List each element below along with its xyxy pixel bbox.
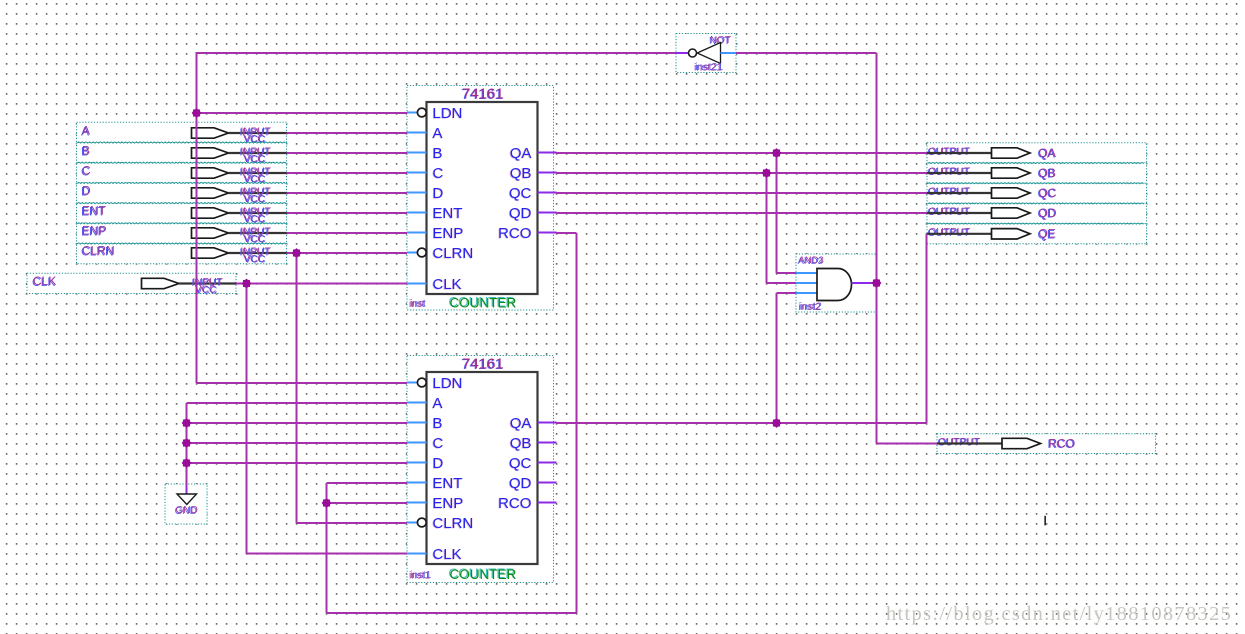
svg-text:QA: QA bbox=[510, 415, 532, 432]
svg-text:C: C bbox=[433, 435, 444, 452]
wire GND B2 bbox=[187, 422, 408, 424]
input pin A bbox=[77, 122, 287, 145]
svg-text:A: A bbox=[433, 125, 443, 142]
svg-text:LDN: LDN bbox=[433, 375, 463, 392]
junction node D2 bbox=[182, 458, 192, 468]
svg-text:QB: QB bbox=[1039, 166, 1056, 180]
NOT gate inst21 bbox=[676, 34, 736, 74]
wire input CLRN to U1 bbox=[287, 252, 408, 254]
junction node QB1 bbox=[762, 168, 772, 178]
svg-text:https://blog.csdn.net/ly188108: https://blog.csdn.net/ly18810878325 bbox=[886, 603, 1232, 625]
svg-text:D: D bbox=[82, 184, 91, 198]
svg-text:inst: inst bbox=[409, 299, 425, 310]
output pin QA bbox=[927, 143, 1147, 163]
svg-text:D: D bbox=[433, 455, 444, 472]
svg-text:COUNTER: COUNTER bbox=[450, 567, 517, 582]
watermark bbox=[886, 603, 1232, 625]
svg-text:QD: QD bbox=[509, 205, 532, 222]
wire input D to U1 bbox=[287, 192, 408, 194]
svg-text:OUTPUT: OUTPUT bbox=[929, 166, 971, 177]
svg-text:VCC: VCC bbox=[244, 255, 266, 266]
wire QA2 to QE chain bbox=[556, 234, 927, 423]
selection box shared borders bbox=[77, 142, 1144, 244]
svg-text:VCC: VCC bbox=[196, 285, 218, 296]
wire GND vertical bbox=[186, 403, 188, 486]
junction node QA1 bbox=[772, 148, 782, 158]
wire QB1 drop to AND3 in2 bbox=[767, 173, 797, 283]
svg-text:QA: QA bbox=[510, 145, 532, 162]
wire input ENP to U1 bbox=[287, 232, 408, 234]
junction node QA2 bbox=[772, 418, 782, 428]
wire RCO1 feedback bbox=[327, 233, 577, 613]
input pin ENT bbox=[77, 203, 287, 226]
input pin D bbox=[77, 183, 287, 206]
svg-text:QB: QB bbox=[510, 435, 532, 452]
wire CLRN chain vertical bbox=[296, 253, 298, 523]
svg-text:ENP: ENP bbox=[433, 225, 464, 242]
svg-text:inst1: inst1 bbox=[409, 571, 431, 582]
wire to U1 LDN bbox=[197, 112, 408, 114]
svg-text:ENP: ENP bbox=[82, 224, 107, 238]
junction node CLK bbox=[242, 279, 252, 289]
svg-text:A: A bbox=[82, 124, 90, 138]
junction node AND3 out bbox=[872, 278, 882, 288]
output pin QE bbox=[927, 224, 1147, 244]
junction node LDN1 bbox=[192, 108, 202, 118]
svg-text:A: A bbox=[433, 395, 443, 412]
svg-text:B: B bbox=[82, 144, 90, 158]
svg-text:QC: QC bbox=[509, 185, 532, 202]
junction node CLRN bbox=[292, 248, 302, 258]
wire GND A2 horizontal bbox=[187, 402, 408, 404]
svg-text:CLK: CLK bbox=[433, 546, 462, 563]
svg-text:CLRN: CLRN bbox=[433, 515, 474, 532]
wire QA2 rise to AND3 in3 bbox=[777, 293, 797, 423]
svg-text:B: B bbox=[433, 145, 443, 162]
wire NOT output to LDN chain horizontal bbox=[197, 52, 677, 54]
wire QA1 drop to AND3 in1 bbox=[777, 153, 797, 273]
junction node B2 bbox=[182, 418, 192, 428]
svg-text:RCO: RCO bbox=[498, 495, 531, 512]
wire LDN chain vertical bbox=[196, 52, 198, 383]
svg-text:74161: 74161 bbox=[462, 86, 504, 103]
74161 counter U1 (inst) bbox=[407, 86, 557, 311]
wire QB1 to output QB bbox=[556, 172, 927, 174]
svg-text:inst21: inst21 bbox=[694, 62, 722, 74]
output pin QD bbox=[927, 203, 1147, 223]
svg-text:QB: QB bbox=[510, 165, 532, 182]
svg-text:ENT: ENT bbox=[82, 204, 107, 218]
wire CLK chain vertical bbox=[246, 284, 248, 554]
wire AND3 out to NOT input bbox=[736, 52, 877, 54]
svg-text:LDN: LDN bbox=[433, 105, 463, 122]
junction node C2 bbox=[182, 438, 192, 448]
svg-text:QE: QE bbox=[1039, 227, 1056, 241]
svg-text:74161: 74161 bbox=[462, 356, 504, 373]
svg-text:D: D bbox=[433, 185, 444, 202]
input pin CLRN bbox=[77, 244, 287, 266]
wire input ENT to U1 bbox=[287, 212, 408, 214]
wire to U2 LDN bbox=[197, 382, 408, 384]
wire QA1 to output QA bbox=[556, 152, 927, 154]
wire AND3 out to output RCO bbox=[877, 443, 938, 445]
input pin C bbox=[77, 163, 287, 186]
output pin QC bbox=[927, 183, 1147, 203]
output pin QB bbox=[927, 163, 1147, 183]
svg-text:OUTPUT: OUTPUT bbox=[929, 146, 971, 157]
junction node ENP2 bbox=[322, 498, 332, 508]
wire input C to U1 bbox=[287, 172, 408, 174]
svg-text:OUTPUT: OUTPUT bbox=[939, 437, 981, 448]
svg-text:ENT: ENT bbox=[433, 475, 463, 492]
wire AND3 out vertical bbox=[876, 53, 878, 444]
svg-text:ENT: ENT bbox=[433, 205, 463, 222]
svg-text:CLRN: CLRN bbox=[433, 245, 474, 262]
wire ENP2 branch bbox=[327, 502, 408, 504]
input pin B bbox=[77, 143, 287, 166]
wire GND D2 bbox=[187, 462, 408, 464]
svg-text:COUNTER: COUNTER bbox=[450, 296, 517, 311]
wire input B to U1 bbox=[287, 152, 408, 154]
svg-text:QA: QA bbox=[1039, 146, 1056, 160]
svg-text:RCO: RCO bbox=[498, 225, 531, 242]
wire CLRN to U2 bbox=[297, 522, 408, 524]
svg-text:CLK: CLK bbox=[433, 276, 462, 293]
svg-text:QD: QD bbox=[1039, 206, 1057, 220]
wire CLK to U2 bbox=[247, 553, 408, 555]
ground symbol GND bbox=[165, 484, 207, 524]
text cursor artifact bbox=[1044, 516, 1046, 526]
svg-text:C: C bbox=[82, 164, 91, 178]
svg-text:AND3: AND3 bbox=[799, 255, 824, 266]
input pin ENP bbox=[77, 223, 287, 245]
74161 counter U2 (inst1) bbox=[407, 356, 557, 583]
svg-text:OUTPUT: OUTPUT bbox=[929, 206, 971, 217]
wire GND C2 bbox=[187, 442, 408, 444]
svg-text:OUTPUT: OUTPUT bbox=[929, 227, 971, 238]
wire CLK to U1 bbox=[236, 283, 407, 285]
svg-text:OUTPUT: OUTPUT bbox=[929, 186, 971, 197]
svg-text:QC: QC bbox=[1039, 186, 1057, 200]
wire QD1 to output QD bbox=[556, 212, 927, 214]
svg-text:C: C bbox=[433, 165, 444, 182]
svg-text:B: B bbox=[433, 415, 443, 432]
svg-text:ENP: ENP bbox=[433, 495, 464, 512]
svg-text:QC: QC bbox=[509, 455, 532, 472]
svg-text:CLK: CLK bbox=[33, 274, 56, 288]
svg-text:CLRN: CLRN bbox=[82, 244, 115, 258]
svg-text:inst2: inst2 bbox=[799, 301, 821, 313]
svg-text:RCO: RCO bbox=[1049, 436, 1076, 450]
wire QC1 to output QC bbox=[556, 192, 927, 194]
svg-text:QD: QD bbox=[509, 475, 532, 492]
wire input A to U1 bbox=[287, 132, 408, 134]
output pin RCO bbox=[937, 434, 1156, 454]
svg-text:GND: GND bbox=[176, 505, 198, 516]
AND3 gate inst2 bbox=[796, 254, 876, 313]
input pin CLK bbox=[27, 273, 236, 296]
